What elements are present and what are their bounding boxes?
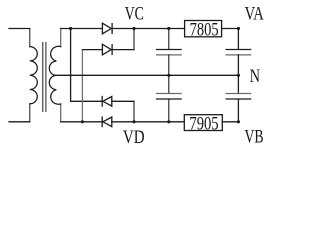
junction dot C3/C4 on N <box>237 74 240 77</box>
wire: 7805 output <box>222 28 239 30</box>
wire: vertical B bottom-end riser to D2 <box>81 50 83 122</box>
wire: vertical A top-end to D3 <box>71 29 103 102</box>
junction dot C1/C2 on N <box>167 74 170 77</box>
transformer T1 secondary winding <box>60 29 62 122</box>
capacitor C2 top lead <box>168 75 170 93</box>
capacitor C3 plates <box>226 49 251 51</box>
capacitor C2 plates <box>157 93 182 95</box>
junction dot C2 bottom <box>167 120 170 123</box>
capacitor C1 bottom lead <box>168 55 170 75</box>
junction dot C1 top <box>167 27 170 30</box>
wire: N line center tap <box>56 74 238 76</box>
capacitor C4 bottom lead <box>237 99 239 122</box>
junction dot bottom-end/vertical B <box>81 120 84 123</box>
regulator U1 7805 box <box>185 21 222 37</box>
wire: primary input top <box>9 28 30 30</box>
svg-text:N: N <box>250 67 260 87</box>
junction dot top-end/vertical A <box>69 27 72 30</box>
capacitor C3 top lead <box>237 29 239 50</box>
junction dot VB rail end <box>237 120 240 123</box>
svg-text:VC: VC <box>125 5 144 25</box>
capacitor C2 bottom lead <box>168 99 170 122</box>
capacitor C1 plates <box>157 49 182 51</box>
wire: D3 anode to bottom rail <box>112 100 134 102</box>
diode D1 <box>102 23 112 34</box>
svg-text:VD: VD <box>123 128 145 148</box>
svg-text:7905: 7905 <box>189 115 218 135</box>
junction dot VD node <box>132 120 135 123</box>
diode D2 <box>102 44 112 55</box>
diode D3 <box>102 97 112 107</box>
capacitor C4 top lead <box>237 75 239 93</box>
transformer T1 primary winding <box>29 29 31 122</box>
capacitor C1 top lead <box>168 29 170 50</box>
wire: primary input bottom <box>9 121 30 123</box>
junction dot VC node <box>132 27 135 30</box>
wire: bottom rail from secondary to regulator <box>61 121 185 123</box>
transformer T1 core <box>42 43 44 112</box>
wire: top rail from secondary to regulator <box>61 28 185 30</box>
capacitor C3 bottom lead <box>237 55 239 75</box>
wire: 7905 output <box>222 121 238 123</box>
diode D4 <box>102 117 112 127</box>
svg-text:VB: VB <box>245 127 264 147</box>
wire: D2 cathode up to VC node <box>112 49 134 51</box>
regulator U2 7905 box <box>184 115 222 131</box>
svg-text:7805: 7805 <box>190 21 219 41</box>
junction dot VA rail end <box>237 27 240 30</box>
capacitor C4 plates <box>226 93 251 95</box>
svg-text:VA: VA <box>245 4 265 24</box>
